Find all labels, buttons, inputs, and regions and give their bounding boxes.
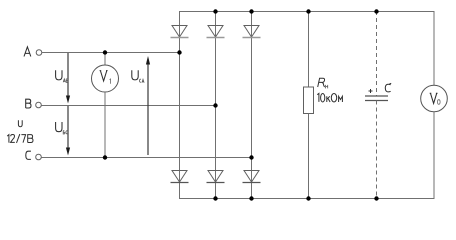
node bottom rail C xyxy=(374,196,378,200)
source label U 12/7V xyxy=(7,120,33,143)
wire column phase A diodes xyxy=(179,11,181,199)
node bottom rail R xyxy=(306,196,310,200)
diode VD6 xyxy=(243,171,261,183)
voltmeter V0 xyxy=(421,11,448,199)
wire column phase C diodes xyxy=(251,11,253,199)
terminal C xyxy=(36,154,42,160)
node bottom rail col3 xyxy=(249,196,253,200)
arrow Uab xyxy=(66,53,70,104)
label Uab xyxy=(56,70,68,82)
label Ubc xyxy=(56,122,68,134)
terminal B xyxy=(36,102,42,108)
terminal B label xyxy=(26,99,31,108)
voltmeter PV1 (AC) xyxy=(92,53,119,159)
label Rn xyxy=(318,78,328,88)
diode VD1 xyxy=(171,26,189,38)
node C-col3 xyxy=(249,155,253,159)
wire phase C xyxy=(42,157,253,159)
wire phase A xyxy=(42,52,179,54)
label 10kOhm xyxy=(317,93,342,102)
label Uca xyxy=(132,70,144,83)
diode VD3 xyxy=(243,26,261,38)
terminal A xyxy=(36,50,42,56)
diode VD4 xyxy=(171,171,189,183)
resistor Rn xyxy=(304,11,314,199)
bottom rail xyxy=(179,198,435,200)
diode VD5 xyxy=(207,171,225,183)
node top rail C xyxy=(374,9,378,13)
node bottom rail col2 xyxy=(213,196,217,200)
wire column phase B diodes xyxy=(215,11,217,199)
node B-col2 xyxy=(213,103,217,107)
terminal A label xyxy=(24,47,31,57)
node C-V1 xyxy=(103,155,107,159)
capacitor C xyxy=(365,11,388,199)
node A-col1 xyxy=(177,50,181,54)
arrow Uca xyxy=(146,56,150,155)
capacitor plus sign xyxy=(369,89,373,93)
node top rail R xyxy=(306,9,310,13)
node top rail col3 xyxy=(249,9,253,13)
top rail xyxy=(179,11,435,13)
wire phase B xyxy=(42,105,217,107)
terminal C label xyxy=(26,151,31,159)
arrow Ubc xyxy=(66,106,70,156)
node A-V1 xyxy=(103,50,107,54)
diode VD2 xyxy=(207,26,225,38)
label C xyxy=(385,83,391,91)
node top rail col2 xyxy=(213,9,217,13)
